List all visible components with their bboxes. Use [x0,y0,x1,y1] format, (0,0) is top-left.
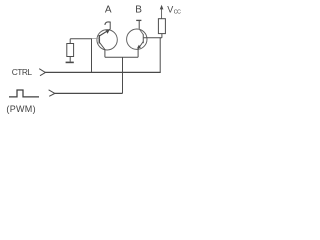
transistor Q_B (NPN, base right, emitter down) [127,29,147,50]
svg-text:CC: CC [174,10,181,16]
wire: CTRL up to B base node [159,37,161,72]
input arrow PWM [49,90,55,97]
wire: PWM line [54,92,122,94]
terminal A lead [105,22,111,29]
wire: emitter/collector common line [105,49,138,57]
svg-text:CTRL: CTRL [12,67,33,77]
terminal B lead [136,20,141,28]
resistor R1 (base of A to ground) [67,39,74,62]
transistor Q_A (NPN, base left, emitter up) [97,29,117,50]
svg-text:(PWM): (PWM) [6,104,36,114]
Vcc arrow [160,5,164,19]
pulse waveform symbol [9,90,39,97]
svg-text:A: A [105,5,112,16]
ground bar under R1 [66,61,74,63]
svg-text:B: B [135,5,142,16]
input arrow CTRL [39,69,45,76]
wire: B base lead [143,37,162,39]
wire: CTRL line [45,71,161,73]
wire: common line down to PWM line [122,57,124,93]
wire: base node down to CTRL line [91,39,93,73]
svg-text:V: V [167,5,173,15]
resistor R2 (pull-up to Vcc) [158,19,165,34]
wire: R1 top / A base [70,38,92,40]
